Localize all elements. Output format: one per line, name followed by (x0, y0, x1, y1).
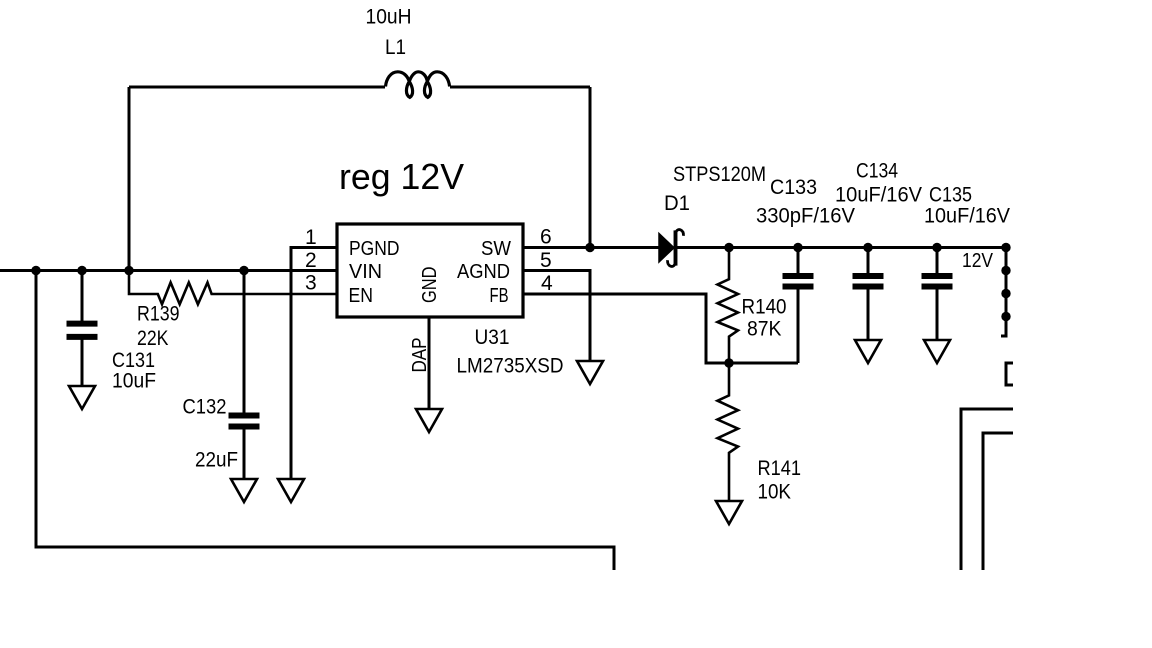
wire C135 lower stub (936, 289, 939, 340)
ground at PGND wire (278, 479, 304, 502)
svg-text:3: 3 (305, 272, 317, 295)
svg-text:C132: C132 (183, 396, 227, 419)
svg-text:1: 1 (305, 226, 317, 249)
wire C131 lower stub (81, 339, 84, 386)
svg-text:C135: C135 (929, 184, 972, 207)
wire FB pin4 to feedback node (523, 294, 798, 363)
junction output at R140 (724, 243, 733, 252)
capacitor C134 10uF/16V (835, 160, 922, 287)
svg-text:SW: SW (481, 238, 511, 260)
inductor L1 (366, 6, 450, 98)
junction 12V bus tap 1 (1001, 266, 1010, 275)
ground at R141 (716, 501, 742, 524)
wire AGND pin5 to ground (523, 271, 590, 362)
svg-text:FB: FB (490, 285, 509, 307)
ground at C132 (231, 479, 257, 502)
junction output at 12V bus (1001, 243, 1010, 252)
svg-text:U31: U31 (475, 326, 510, 349)
svg-text:R141: R141 (758, 457, 802, 480)
svg-text:reg 12V: reg 12V (339, 156, 465, 197)
capacitor C135 10uF/16V (922, 184, 1011, 287)
wire C131 upper stub (81, 271, 84, 322)
capacitor C131 10uF (67, 324, 157, 393)
junction on rail at C131 (77, 266, 86, 275)
junction 12V bus tap 3 (1001, 312, 1010, 321)
wire PGND pin1 to ground (291, 248, 337, 480)
svg-text:87K: 87K (747, 318, 782, 341)
svg-text:STPS120M: STPS120M (673, 163, 766, 186)
svg-text:R140: R140 (742, 296, 787, 319)
ground at AGND (577, 361, 603, 384)
wire clipped inner corner (983, 433, 1013, 570)
wire C134 upper stub (867, 248, 870, 274)
wire L1 left leg vertical (128, 87, 131, 271)
svg-text:22uF: 22uF (195, 449, 238, 472)
svg-text:2: 2 (305, 249, 317, 272)
resistor R139 22K (129, 271, 337, 351)
wire bottom left return (36, 271, 614, 571)
svg-text:R139: R139 (137, 303, 180, 326)
capacitor C132 22uF (183, 396, 260, 472)
junction on rail at C132 (239, 266, 248, 275)
wire output rail after diode (677, 246, 1006, 249)
junction output at C133 (793, 243, 802, 252)
svg-text:AGND: AGND (457, 261, 510, 283)
junction output at C135 (932, 243, 941, 252)
svg-text:C133: C133 (770, 176, 817, 199)
svg-text:4: 4 (541, 272, 553, 295)
wire clipped bracket symbol (1006, 363, 1013, 385)
svg-text:10uH: 10uH (366, 6, 412, 29)
ground at C134 (855, 340, 881, 363)
wire L1 right leg vertical to SW node (589, 87, 592, 248)
svg-text:22K: 22K (137, 327, 169, 350)
svg-text:330pF/16V: 330pF/16V (756, 205, 855, 228)
junction on rail at L1 left leg (124, 266, 133, 275)
ground at U31 DAP (416, 409, 442, 432)
junction on rail at return wire (31, 266, 40, 275)
svg-text:D1: D1 (664, 192, 690, 215)
resistor R140 87K (718, 248, 787, 364)
svg-text:VIN: VIN (349, 261, 382, 283)
diode D1 STPS120M schottky (659, 163, 766, 266)
svg-text:C134: C134 (856, 160, 898, 183)
svg-text:10uF: 10uF (112, 370, 156, 393)
wire SW pin6 to diode (523, 246, 659, 249)
wire top right horizontal from L1 (450, 86, 590, 89)
svg-text:10K: 10K (758, 481, 792, 504)
svg-text:DAP: DAP (409, 338, 431, 373)
svg-text:10uF/16V: 10uF/16V (924, 205, 1010, 228)
op-amp U1 IC U31 LM2735XSD body (337, 224, 564, 378)
wire C132 lower stub (243, 429, 246, 479)
junction 12V bus tap 2 (1001, 289, 1010, 298)
capacitor C133 330pF/16V (756, 176, 855, 287)
svg-text:GND: GND (419, 267, 441, 304)
wire 12V bus vertical (1001, 248, 1006, 337)
svg-text:12V: 12V (962, 250, 994, 272)
wire clipped outer corner (961, 409, 1013, 570)
svg-text:LM2735XSD: LM2735XSD (457, 355, 564, 378)
ground at C135 (924, 340, 950, 363)
junction output at C134 (863, 243, 872, 252)
svg-text:EN: EN (349, 285, 374, 307)
svg-text:L1: L1 (385, 36, 406, 59)
wire main VIN rail (0, 269, 337, 272)
wire C133 upper stub (797, 248, 800, 274)
resistor R141 10K (718, 363, 802, 504)
svg-text:5: 5 (540, 249, 552, 272)
wire C132 upper stub (243, 271, 246, 414)
ground at C131 (69, 386, 95, 409)
wire C133 lower stub (797, 289, 800, 363)
svg-text:6: 6 (540, 226, 552, 249)
wire U31 GND pad to ground (428, 317, 431, 409)
junction SW node (585, 243, 594, 252)
junction feedback node (724, 358, 733, 367)
svg-text:10uF/16V: 10uF/16V (835, 184, 922, 207)
wire C135 upper stub (936, 248, 939, 274)
svg-text:PGND: PGND (349, 238, 400, 260)
wire C134 lower stub (867, 289, 870, 340)
wire top left horizontal to L1 (129, 86, 385, 89)
